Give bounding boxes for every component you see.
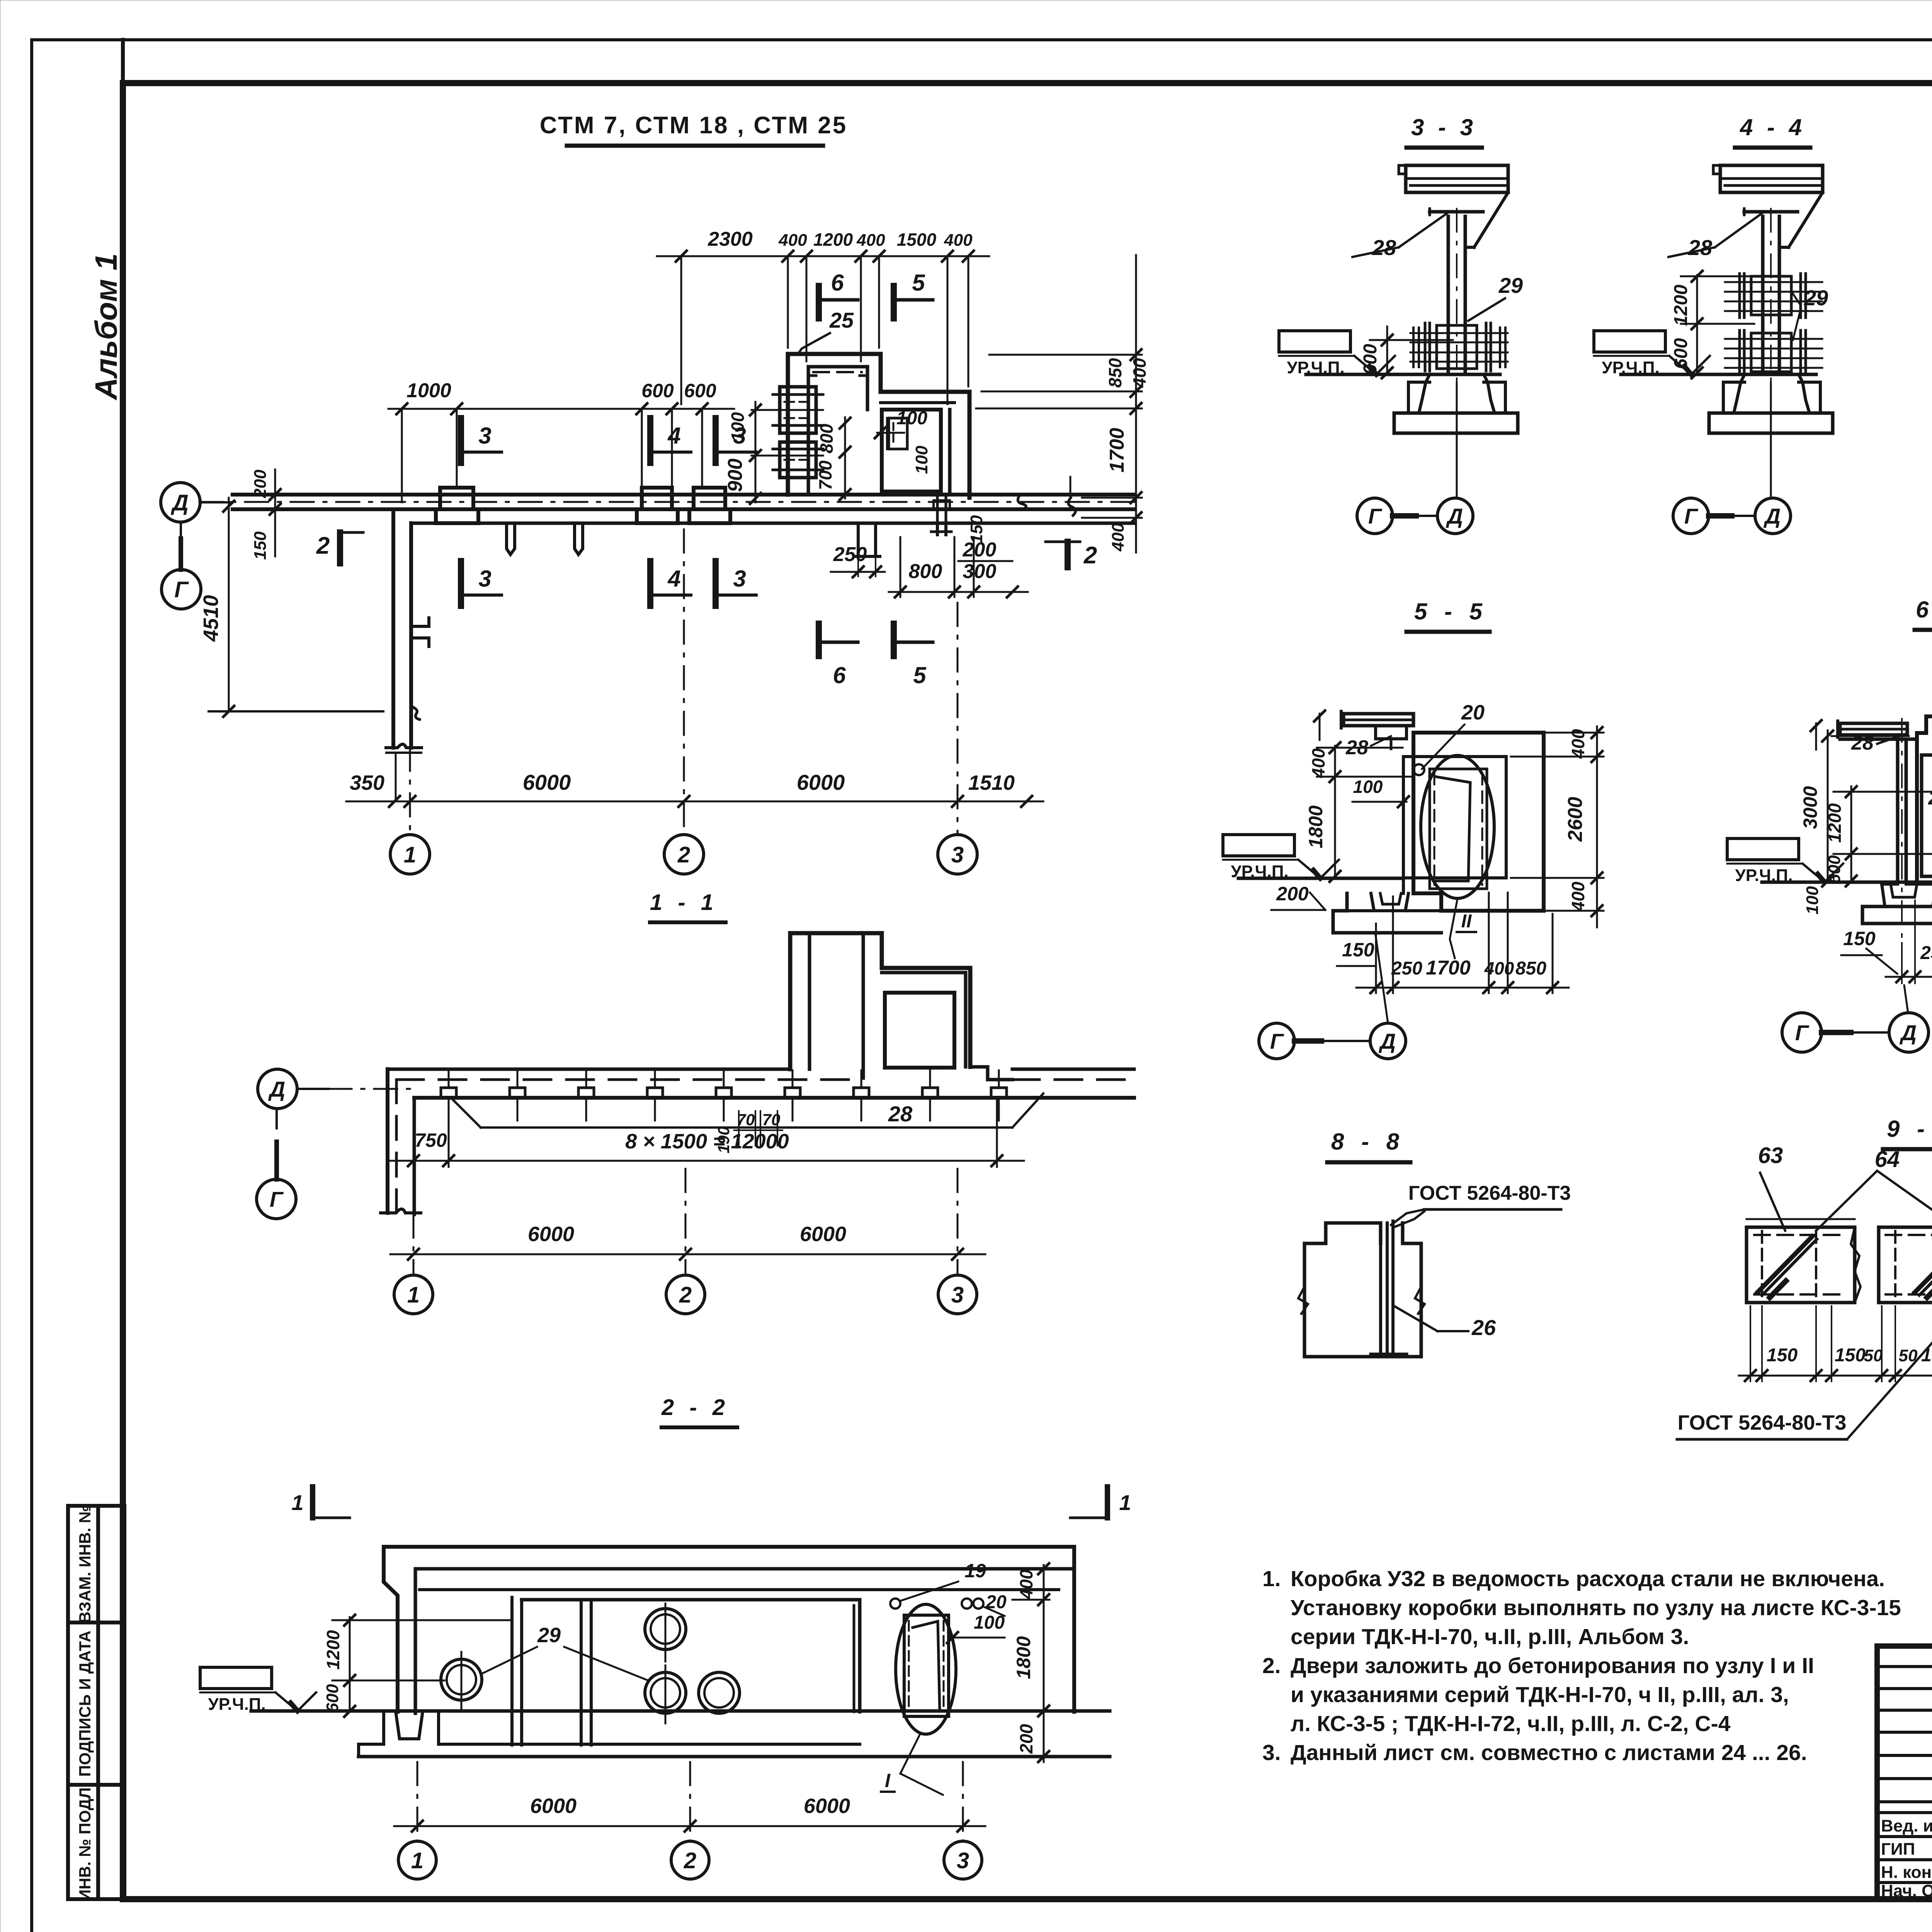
plan left dim 4510 xyxy=(228,498,230,711)
section marker 3 top-mid xyxy=(713,418,719,463)
sec33 axis line down xyxy=(1456,383,1458,496)
svg-text:29: 29 xyxy=(1804,286,1828,310)
pit walls below main wall xyxy=(857,523,860,556)
sec33 top beam xyxy=(1406,165,1508,192)
sec22 door leaf xyxy=(912,1621,940,1711)
plan top dim chain xyxy=(657,255,989,257)
svg-text:190: 190 xyxy=(714,1126,733,1153)
svg-text:150: 150 xyxy=(1342,939,1374,961)
svg-text:Д: Д xyxy=(1764,504,1781,528)
svg-text:1200: 1200 xyxy=(813,230,853,250)
sec44 axis circles xyxy=(1673,498,1709,534)
title block outer xyxy=(1877,1646,1932,1899)
sec55 axis circles xyxy=(1259,1023,1294,1059)
sec66 roof beam xyxy=(1840,723,1907,735)
svg-text:6000: 6000 xyxy=(530,1794,577,1818)
svg-text:150: 150 xyxy=(1843,928,1876,949)
sec55 dim 400 1800 left xyxy=(1334,746,1336,878)
sec55 door frame dashed xyxy=(1430,769,1487,889)
svg-text:100: 100 xyxy=(1803,886,1822,915)
sec99 right piece dashes xyxy=(1886,1234,1932,1236)
sec55 dim right 400 2600 400 xyxy=(1596,726,1598,927)
svg-text:УР.Ч.П.: УР.Ч.П. xyxy=(1602,358,1659,377)
svg-text:Двери заложить до бетонировани: Двери заложить до бетонирования по узлу … xyxy=(1291,1653,1814,1678)
svg-text:Д: Д xyxy=(268,1077,285,1101)
svg-text:850: 850 xyxy=(1105,358,1125,388)
pit left wall xyxy=(786,354,790,495)
svg-text:400: 400 xyxy=(856,231,885,250)
svg-text:Г: Г xyxy=(1270,1029,1284,1053)
sec22 small circles 19 20 xyxy=(890,1599,900,1609)
svg-text:6000: 6000 xyxy=(800,1223,846,1246)
sec99 left piece outline xyxy=(1747,1227,1855,1303)
svg-text:Данный лист см. совместно с ли: Данный лист см. совместно с листами 24 .… xyxy=(1291,1740,1807,1765)
pit right wall upper xyxy=(866,367,869,410)
section marker 4 bottom xyxy=(647,561,653,606)
section marker 5 bottom xyxy=(891,624,897,656)
svg-text:1: 1 xyxy=(291,1490,303,1515)
pier axis1-2 a xyxy=(440,488,473,509)
sec44 column xyxy=(1761,216,1765,373)
sec55 ground line xyxy=(1238,877,1403,880)
svg-text:8 - 8: 8 - 8 xyxy=(1331,1129,1405,1155)
sec44 dims 600 1200 xyxy=(1696,275,1698,374)
plan dim 800 700 rotated xyxy=(844,417,846,498)
svg-text:2: 2 xyxy=(679,1282,692,1308)
sec66 ground line xyxy=(1762,881,1932,884)
svg-text:200: 200 xyxy=(1016,1724,1036,1754)
sec11 dim 8x1500 xyxy=(390,1160,1024,1162)
svg-text:3: 3 xyxy=(478,566,491,592)
svg-text:Г: Г xyxy=(270,1187,284,1211)
svg-text:400: 400 xyxy=(1308,748,1328,778)
sec11 label 28 leader xyxy=(481,1126,1012,1129)
svg-text:3.: 3. xyxy=(1262,1740,1281,1765)
sec33 axis circles xyxy=(1357,498,1393,534)
svg-text:1700: 1700 xyxy=(1426,957,1471,979)
sec22 level mark xyxy=(200,1667,272,1689)
svg-text:1510: 1510 xyxy=(968,771,1015,794)
sec33 rebar cage xyxy=(1437,325,1477,369)
sec33 dim 600 xyxy=(1386,327,1388,374)
svg-text:СТМ 7, СТМ 18 , СТМ 25: СТМ 7, СТМ 18 , СТМ 25 xyxy=(540,112,847,139)
svg-text:64: 64 xyxy=(1875,1147,1900,1172)
svg-text:100: 100 xyxy=(912,446,931,474)
svg-text:1: 1 xyxy=(404,842,416,867)
svg-text:9 - 9: 9 - 9 xyxy=(1887,1116,1932,1142)
svg-text:1: 1 xyxy=(1119,1490,1131,1515)
svg-text:600: 600 xyxy=(684,380,716,401)
svg-text:Д: Д xyxy=(170,490,189,515)
svg-text:600: 600 xyxy=(323,1684,342,1713)
wall break marks right xyxy=(1018,495,1026,509)
svg-text:29: 29 xyxy=(1498,273,1523,298)
svg-text:1800: 1800 xyxy=(1305,805,1327,848)
sec99 left diagonals xyxy=(1757,1236,1812,1293)
svg-text:3: 3 xyxy=(951,1282,964,1308)
svg-text:2300: 2300 xyxy=(707,228,753,250)
svg-text:5: 5 xyxy=(913,662,927,688)
svg-text:6 - 6: 6 - 6 xyxy=(1916,597,1932,622)
svg-text:1 - 1: 1 - 1 xyxy=(650,890,718,915)
sec11 band bottom xyxy=(414,1096,1134,1100)
sec66 wall outline xyxy=(1915,733,1919,882)
svg-text:3 - 3: 3 - 3 xyxy=(1411,114,1477,140)
svg-text:УР.Ч.П.: УР.Ч.П. xyxy=(1287,358,1344,377)
sec44 rebar cage lower xyxy=(1751,333,1791,372)
pit inner room xyxy=(882,410,941,492)
top band left edge xyxy=(121,40,125,83)
sec11 right step xyxy=(970,1067,1012,1080)
svg-text:Н. контр.: Н. контр. xyxy=(1881,1863,1932,1882)
axis circle 3 plan xyxy=(938,835,977,874)
section marker 6 bottom xyxy=(816,624,822,656)
sec99 cut between xyxy=(1851,1227,1861,1303)
sec55 level mark xyxy=(1223,835,1294,856)
svg-text:6000: 6000 xyxy=(804,1794,850,1818)
sec44 top beam xyxy=(1720,165,1823,192)
svg-text:3: 3 xyxy=(957,1848,969,1873)
svg-text:3: 3 xyxy=(951,842,964,867)
pit step wall xyxy=(881,390,969,394)
svg-text:2.: 2. xyxy=(1262,1653,1281,1678)
svg-text:250: 250 xyxy=(1920,943,1932,963)
sec11 axis lines xyxy=(413,1169,415,1275)
svg-text:1200: 1200 xyxy=(1825,803,1845,843)
svg-text:Г: Г xyxy=(1795,1020,1810,1045)
sec11 main band top xyxy=(388,1068,790,1071)
sec55 door leaf xyxy=(1434,777,1470,881)
sec55 small hole 20 xyxy=(1413,764,1424,775)
svg-text:ГОСТ 5264-80-Т3: ГОСТ 5264-80-Т3 xyxy=(1408,1182,1571,1204)
sec44 ground line xyxy=(1621,373,1816,376)
sec66 level mark xyxy=(1727,838,1799,860)
svg-text:Г: Г xyxy=(174,577,189,602)
svg-text:3000: 3000 xyxy=(1799,786,1821,829)
axis circle 1 plan xyxy=(390,835,430,874)
svg-text:II: II xyxy=(1461,911,1472,932)
svg-text:Нач. ОТЭП: Нач. ОТЭП xyxy=(1881,1881,1932,1900)
svg-text:600: 600 xyxy=(641,380,674,401)
svg-text:ПОДПИСЬ И ДАТА: ПОДПИСЬ И ДАТА xyxy=(76,1631,94,1777)
left wall break mark xyxy=(386,744,422,748)
section marker 3 top-left xyxy=(458,418,464,463)
svg-text:26: 26 xyxy=(1471,1315,1496,1340)
svg-text:400: 400 xyxy=(1109,523,1128,552)
sec44 level mark xyxy=(1594,331,1665,352)
svg-text:150: 150 xyxy=(1767,1345,1798,1366)
sec22 marker 1 right xyxy=(1105,1487,1110,1518)
svg-text:63: 63 xyxy=(1758,1143,1783,1168)
plan dim 200 150 xyxy=(274,469,276,509)
svg-text:400: 400 xyxy=(944,231,973,250)
left stamp table xyxy=(68,1506,124,1899)
sec99 right piece outline xyxy=(1879,1227,1932,1303)
sec44 axis line down xyxy=(1770,383,1772,496)
svg-text:УР.Ч.П.: УР.Ч.П. xyxy=(1735,866,1793,885)
sec11 anchors xyxy=(441,1088,456,1098)
svg-text:150: 150 xyxy=(251,531,270,560)
svg-text:4: 4 xyxy=(667,566,680,592)
svg-text:100: 100 xyxy=(974,1612,1005,1633)
sec22 foundation xyxy=(359,1713,384,1757)
sec22 right dims 400 1800 200 xyxy=(1043,1565,1045,1762)
sec55 door oval xyxy=(1421,755,1494,898)
svg-text:УР.Ч.П.: УР.Ч.П. xyxy=(1231,862,1288,881)
anchor bolts right xyxy=(936,498,939,535)
svg-text:1500: 1500 xyxy=(897,230,937,250)
svg-text:4510: 4510 xyxy=(199,595,223,642)
sec55 foundation xyxy=(1345,893,1349,911)
sec33 level mark xyxy=(1279,331,1350,352)
svg-text:ГИП: ГИП xyxy=(1881,1840,1915,1859)
svg-text:100: 100 xyxy=(728,412,748,442)
svg-text:2: 2 xyxy=(684,1848,696,1873)
sec22 marker 1 left xyxy=(310,1487,315,1518)
svg-text:28: 28 xyxy=(888,1102,913,1126)
sec11 axis circles bottom xyxy=(394,1275,433,1314)
sec33 foundation xyxy=(1408,374,1430,413)
axis circle G plan xyxy=(162,570,201,609)
svg-text:400: 400 xyxy=(1568,729,1588,759)
sec88 block outline xyxy=(1304,1223,1421,1357)
svg-text:150: 150 xyxy=(1835,1345,1866,1366)
svg-text:900: 900 xyxy=(724,459,747,492)
sec99 bottom dims xyxy=(1739,1375,1932,1377)
sec55 inner wall lines xyxy=(1402,757,1405,893)
svg-text:2: 2 xyxy=(677,842,690,867)
sec22 ground line xyxy=(251,1709,1110,1713)
plan top dim extensions xyxy=(680,256,682,404)
sec22 inner ceiling lines xyxy=(420,1588,1059,1591)
svg-text:1800: 1800 xyxy=(1013,1636,1034,1679)
sec88 embed plate xyxy=(1379,1223,1382,1354)
svg-text:4 - 4: 4 - 4 xyxy=(1740,114,1806,140)
svg-text:Г: Г xyxy=(1368,504,1383,528)
svg-text:100: 100 xyxy=(1353,777,1383,797)
svg-text:1: 1 xyxy=(407,1282,420,1308)
svg-text:600: 600 xyxy=(1825,855,1844,884)
sec33 ground line xyxy=(1306,373,1500,376)
svg-text:2: 2 xyxy=(1083,542,1097,569)
svg-text:2: 2 xyxy=(316,532,330,559)
svg-text:1: 1 xyxy=(411,1848,423,1873)
sec66 axis circles xyxy=(1782,1013,1821,1052)
title block signature rows xyxy=(1877,1665,1932,1668)
svg-text:ИНВ. № ПОДЛ.: ИНВ. № ПОДЛ. xyxy=(76,1783,94,1901)
section marker 2 right xyxy=(1065,542,1071,567)
svg-text:300: 300 xyxy=(963,560,997,583)
svg-text:25: 25 xyxy=(829,308,854,332)
left wall plan xyxy=(391,509,395,748)
svg-text:1.: 1. xyxy=(1262,1566,1281,1591)
axis circle D plan xyxy=(161,483,200,522)
rebar comb a xyxy=(780,387,816,433)
box25 detail in pit xyxy=(889,418,907,449)
svg-text:19: 19 xyxy=(964,1560,986,1582)
svg-text:1700: 1700 xyxy=(1106,428,1128,473)
sec88 cut marks xyxy=(1298,1287,1308,1314)
sec22 inner room xyxy=(522,1598,860,1602)
wall pilaster stubs xyxy=(507,523,515,554)
sec99 left piece dashes xyxy=(1754,1234,1847,1236)
sec66 foundation xyxy=(1882,883,1898,886)
sec55 wall outline xyxy=(1413,733,1544,911)
svg-text:200: 200 xyxy=(1276,883,1309,905)
plan axis verticals xyxy=(683,529,685,835)
sec44 rebar cage upper xyxy=(1751,276,1791,315)
sec11 band dashed line xyxy=(396,1078,862,1081)
sec66 inner room xyxy=(1922,753,1932,757)
sec55 bottom dim 250 1700 400 850 xyxy=(1356,987,1569,989)
svg-text:ГОСТ 5264-80-Т3: ГОСТ 5264-80-Т3 xyxy=(1678,1411,1847,1434)
svg-text:6: 6 xyxy=(831,270,844,296)
pit top wall xyxy=(788,352,881,356)
svg-text:2600: 2600 xyxy=(1564,797,1587,842)
sec22 bottom dim 6000 6000 xyxy=(394,1825,985,1827)
svg-text:ВЗАМ. ИНВ. №: ВЗАМ. ИНВ. № xyxy=(76,1505,94,1623)
section marker 3 bottom-mid xyxy=(713,561,719,606)
svg-text:600: 600 xyxy=(1671,338,1691,369)
svg-text:Д: Д xyxy=(1900,1020,1917,1045)
sec22 axis circles xyxy=(398,1841,436,1879)
svg-text:400: 400 xyxy=(1568,881,1588,912)
section marker 2 left xyxy=(337,532,343,563)
svg-text:100: 100 xyxy=(896,408,927,429)
svg-text:Д: Д xyxy=(1379,1029,1396,1053)
sec33 column xyxy=(1447,216,1450,373)
svg-text:Коробка У32 в ведомость расход: Коробка У32 в ведомость расхода стали не… xyxy=(1291,1566,1885,1591)
svg-text:Г: Г xyxy=(1684,504,1699,528)
svg-text:1200: 1200 xyxy=(1671,284,1691,326)
axis circle 2 plan xyxy=(664,835,704,874)
svg-text:УР.Ч.П.: УР.Ч.П. xyxy=(208,1695,265,1714)
svg-text:1200: 1200 xyxy=(323,1630,343,1670)
pier c xyxy=(694,488,725,509)
svg-text:800: 800 xyxy=(816,423,837,453)
svg-text:750: 750 xyxy=(415,1129,447,1151)
svg-text:400: 400 xyxy=(778,231,807,250)
svg-text:8 × 1500 = 12000: 8 × 1500 = 12000 xyxy=(625,1130,789,1153)
section marker 3 bottom-left xyxy=(458,561,464,606)
svg-text:29: 29 xyxy=(537,1624,561,1647)
svg-text:50: 50 xyxy=(1864,1346,1883,1365)
sec11 superstructure tall box xyxy=(790,933,970,1069)
plan right dim chain xyxy=(1135,255,1137,553)
svg-text:3: 3 xyxy=(478,423,491,449)
sec22 dims 1200 600 xyxy=(349,1617,351,1711)
svg-text:400: 400 xyxy=(1129,358,1150,388)
axis D centerline xyxy=(199,501,1136,503)
svg-text:Д: Д xyxy=(1446,504,1463,528)
sec55 roof beam xyxy=(1344,714,1413,726)
svg-text:6000: 6000 xyxy=(797,770,845,794)
svg-text:20: 20 xyxy=(1461,701,1485,724)
svg-text:I: I xyxy=(885,1770,891,1791)
sec22 partitions xyxy=(580,1600,583,1745)
svg-text:850: 850 xyxy=(1515,958,1546,979)
svg-text:5 - 5: 5 - 5 xyxy=(1414,599,1488,624)
section marker 5 top plan xyxy=(891,286,897,318)
axis D wall plan xyxy=(233,493,1134,497)
svg-text:250: 250 xyxy=(833,543,867,566)
svg-text:4: 4 xyxy=(667,423,680,449)
sec22 pipe holes xyxy=(645,1609,686,1650)
svg-text:22: 22 xyxy=(1928,787,1932,809)
svg-text:2 - 2: 2 - 2 xyxy=(661,1395,730,1420)
svg-text:1000: 1000 xyxy=(406,379,451,402)
svg-text:700: 700 xyxy=(815,460,835,490)
sec66 dims left 3000 1200 600 100 xyxy=(1827,730,1829,882)
svg-text:л. КС-3-5 ; ТДК-Н-I-72, ч.II,: л. КС-3-5 ; ТДК-Н-I-72, ч.II, р.III, л. … xyxy=(1291,1711,1731,1736)
svg-text:Альбом 1: Альбом 1 xyxy=(89,253,123,400)
svg-text:600: 600 xyxy=(1360,344,1381,375)
svg-text:350: 350 xyxy=(350,771,384,794)
svg-text:800: 800 xyxy=(909,560,942,583)
plan dim 100 900 rotated xyxy=(755,402,757,502)
rebar comb b xyxy=(780,442,816,478)
plan bottom dim chain xyxy=(346,801,1043,803)
section marker 4 top xyxy=(647,418,653,463)
sec11 inner window xyxy=(885,993,954,1068)
svg-text:250: 250 xyxy=(1391,958,1422,979)
sec99 right diagonals xyxy=(1915,1236,1932,1293)
svg-text:6000: 6000 xyxy=(528,1223,574,1246)
sec22 door frame xyxy=(904,1615,949,1716)
sec11 axis circles left xyxy=(258,1069,297,1109)
pier b xyxy=(642,488,672,509)
sec22 axis lines xyxy=(417,1762,418,1841)
svg-text:6000: 6000 xyxy=(523,770,571,794)
svg-text:Вед. инж.: Вед. инж. xyxy=(1881,1816,1932,1835)
svg-text:серии ТДК-Н-I-70, ч.II, р.III,: серии ТДК-Н-I-70, ч.II, р.III, Альбом 3. xyxy=(1291,1624,1689,1649)
svg-text:400: 400 xyxy=(1016,1569,1036,1599)
svg-text:5: 5 xyxy=(912,270,925,296)
svg-text:и указаниями серий ТДК-Н-I-70,: и указаниями серий ТДК-Н-I-70, ч II, р.I… xyxy=(1291,1682,1789,1707)
sec66 middle wall xyxy=(1896,739,1900,882)
left wall notches xyxy=(411,618,429,626)
sec11 bottom dim 6000 6000 xyxy=(390,1253,985,1255)
svg-text:200: 200 xyxy=(963,539,997,561)
svg-text:6: 6 xyxy=(833,662,846,688)
sec22 roof slab xyxy=(384,1547,1074,1712)
plan dim 1000-600-600 line xyxy=(388,408,734,410)
svg-text:Установку коробки выполнять по: Установку коробки выполнять по узлу на л… xyxy=(1291,1595,1901,1620)
svg-text:200: 200 xyxy=(251,469,270,498)
svg-text:3: 3 xyxy=(733,566,746,592)
sec44 foundation xyxy=(1723,374,1745,413)
sec22 door oval xyxy=(896,1604,956,1734)
sec11 left wall end xyxy=(386,1069,389,1213)
section marker 6 top xyxy=(816,286,822,318)
